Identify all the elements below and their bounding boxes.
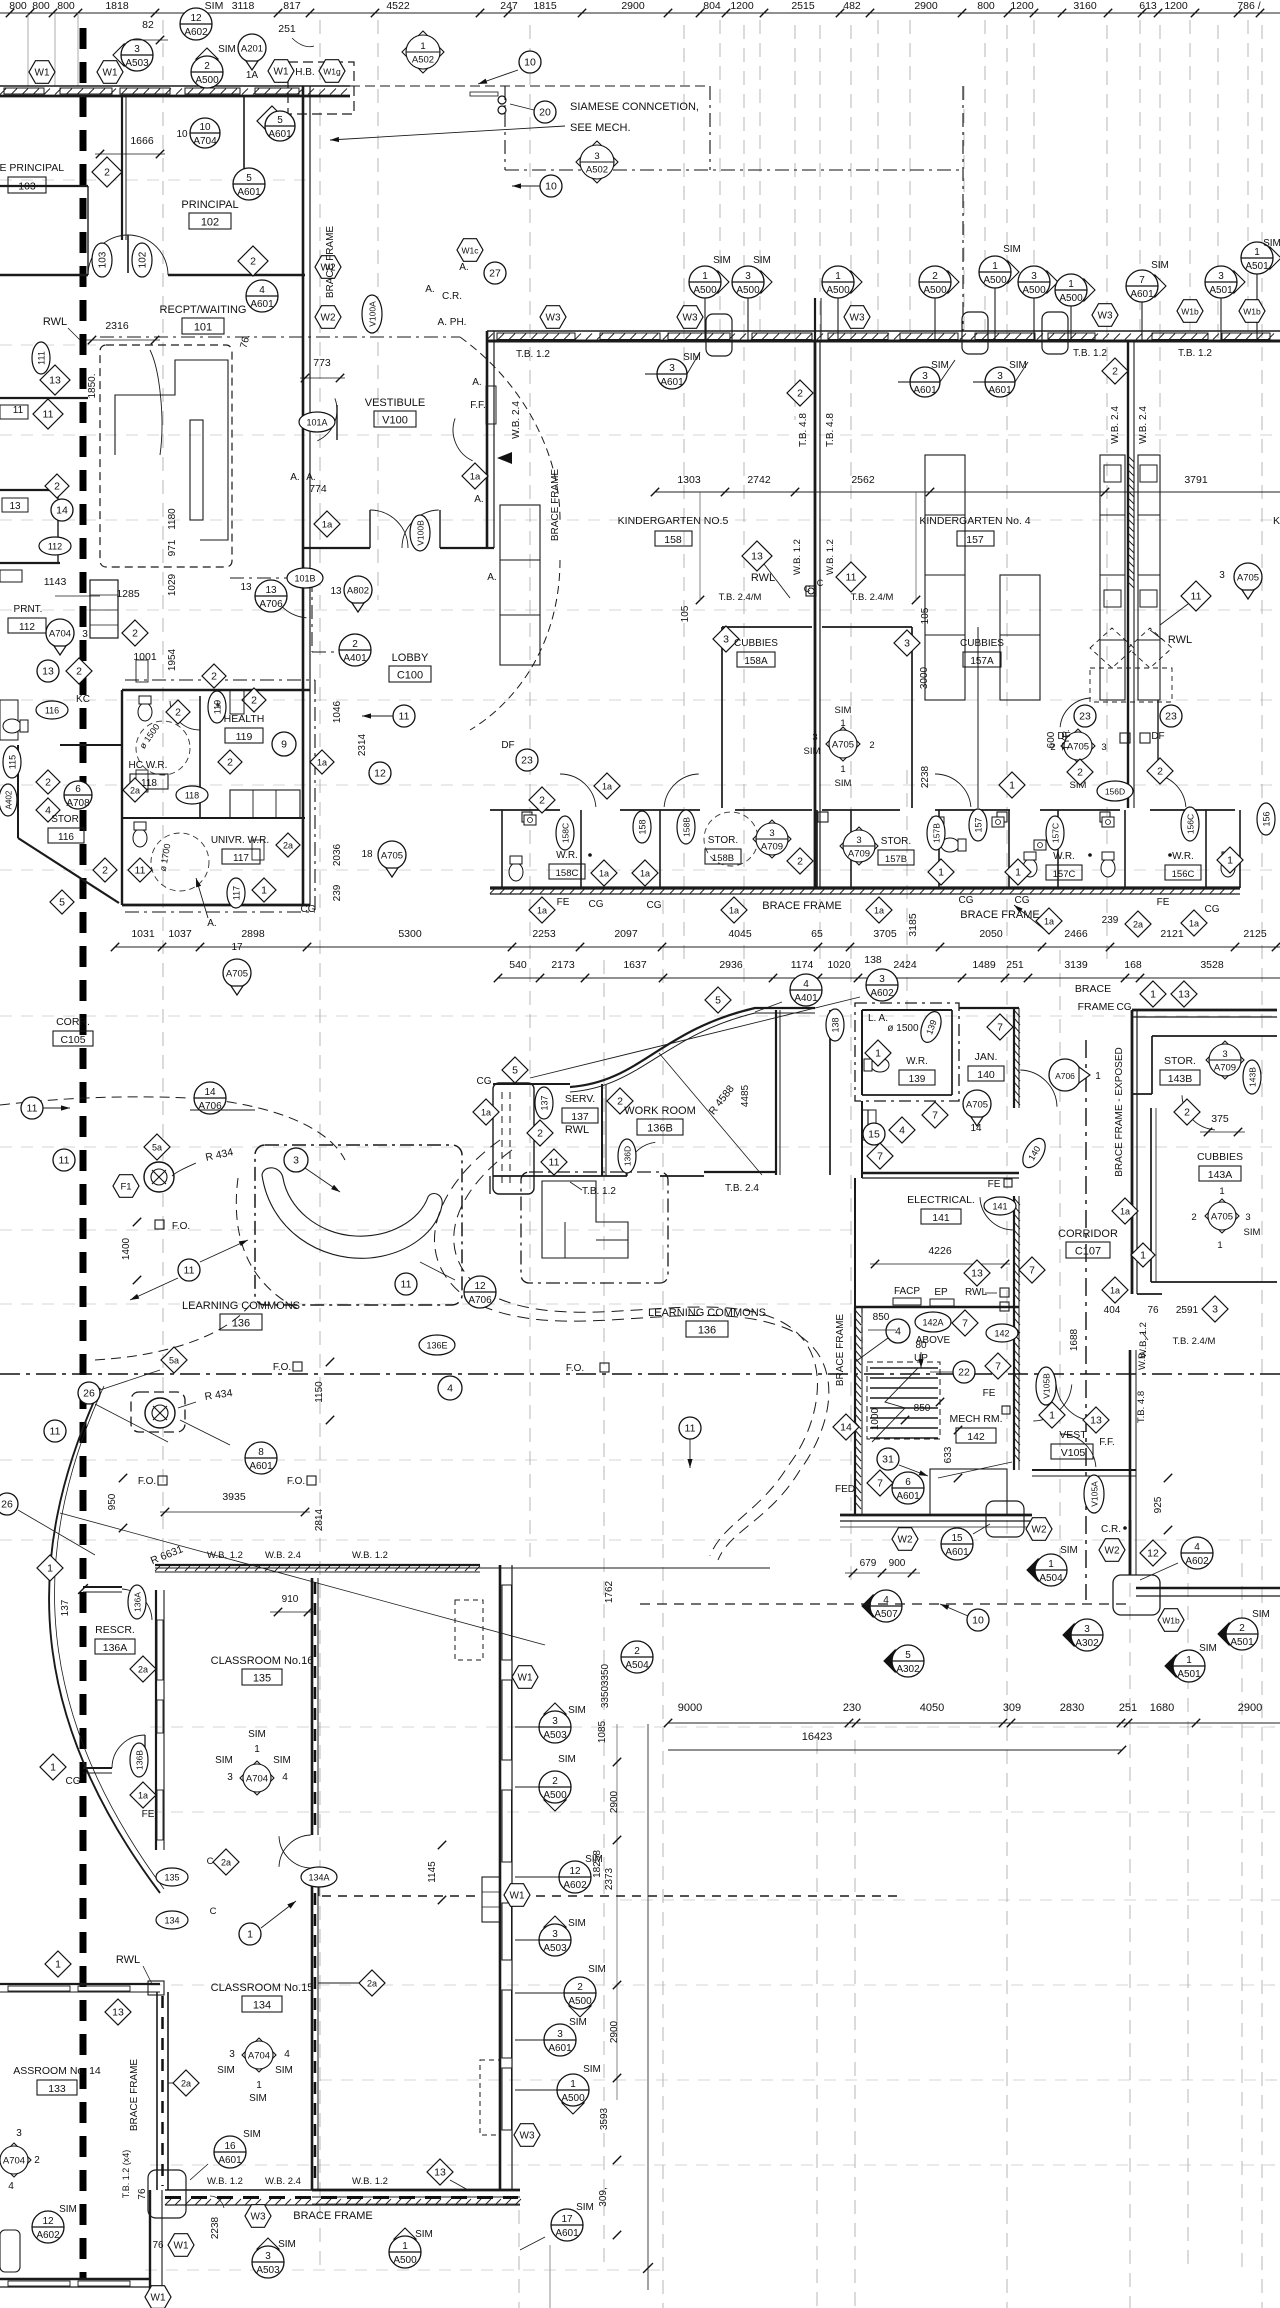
top-area annotations: siamese connection note bbox=[330, 101, 699, 142]
svg-text:101A: 101A bbox=[306, 418, 327, 428]
svg-text:2466: 2466 bbox=[1064, 928, 1088, 940]
svg-text:101: 101 bbox=[194, 322, 212, 334]
mech/vest annotations: tric2A501 bbox=[1218, 1609, 1270, 1650]
svg-text:13: 13 bbox=[1178, 989, 1190, 1001]
top-area annotations: dim 1666 bbox=[95, 135, 165, 158]
svg-text:76: 76 bbox=[1147, 1305, 1159, 1316]
serv/workroom annotations: c3A602 bbox=[530, 969, 898, 1078]
mech/vest annotations: c31 bbox=[877, 1448, 928, 1476]
svg-text:2a: 2a bbox=[367, 1979, 377, 1989]
vestibule walls bbox=[303, 331, 494, 548]
svg-text:1: 1 bbox=[1048, 1559, 1054, 1570]
svg-text:C.R.: C.R. bbox=[442, 291, 462, 302]
svg-text:2: 2 bbox=[76, 666, 82, 678]
svg-text:12: 12 bbox=[1147, 1548, 1159, 1560]
mech/vest annotations: dim679 bbox=[845, 1558, 920, 1577]
learning commons annotations: c3 bean bbox=[284, 1148, 340, 1192]
svg-text:786 /: 786 / bbox=[1237, 0, 1260, 12]
svg-text:137: 137 bbox=[540, 1095, 550, 1110]
mech/vest annotations: tric3A302 bbox=[1063, 1619, 1103, 1651]
svg-text:SIM: SIM bbox=[569, 2017, 587, 2028]
serv/workroom annotations: text RWL s bbox=[565, 1124, 589, 1136]
svg-text:5300: 5300 bbox=[398, 928, 422, 940]
stor143B / cubbies143A walls bbox=[1132, 1010, 1277, 1294]
kindergarten annotations: sim text 762 bbox=[753, 255, 771, 266]
svg-text:910: 910 bbox=[282, 1594, 299, 1605]
svg-text:A500: A500 bbox=[1022, 285, 1046, 296]
svg-text:3139: 3139 bbox=[1064, 959, 1088, 971]
corridor/stor annotations: rwl e bbox=[965, 1287, 1009, 1311]
serv/workroom annotations: d5 s1 bbox=[502, 1057, 528, 1083]
classroom block walls bbox=[0, 1565, 900, 2290]
top-area annotations: detail circle 5/A601 a bbox=[233, 168, 265, 200]
svg-text:3: 3 bbox=[1101, 742, 1106, 753]
kindergarten annotations: window module a bbox=[706, 314, 732, 356]
classroom annotations: rot2238 cl bbox=[210, 2196, 224, 2239]
svg-text:KINDERGARTEN No. 4: KINDERGARTEN No. 4 bbox=[919, 515, 1030, 527]
classroom annotations: c3A601 e bbox=[515, 2017, 587, 2056]
svg-text:13: 13 bbox=[1090, 1415, 1102, 1427]
kindergarten annotations: d2 k3 bbox=[1147, 758, 1173, 784]
svg-text:SIM: SIM bbox=[835, 778, 852, 789]
svg-text:A708: A708 bbox=[66, 798, 90, 809]
svg-text:W1: W1 bbox=[518, 1673, 533, 1684]
svg-text:2900: 2900 bbox=[609, 2020, 620, 2043]
health suite annotations: text CG h bbox=[301, 904, 316, 915]
svg-text:2125: 2125 bbox=[1243, 928, 1267, 940]
svg-text:F.F.: F.F. bbox=[470, 400, 486, 411]
svg-text:27: 27 bbox=[489, 268, 501, 280]
learning commons annotations: c11 m1 bbox=[53, 1149, 75, 1171]
classroom annotations: cl dim ticks bbox=[613, 1758, 621, 2239]
svg-text:1150: 1150 bbox=[314, 1381, 325, 1403]
svg-text:20: 20 bbox=[539, 107, 551, 119]
svg-text:679: 679 bbox=[860, 1558, 877, 1569]
svg-text:A.: A. bbox=[306, 472, 315, 483]
west edge annotations: rot 971 bbox=[167, 539, 178, 556]
svg-text:2: 2 bbox=[251, 695, 257, 707]
classroom annotations: wb labels2 bbox=[207, 2176, 388, 2187]
svg-text:1954: 1954 bbox=[167, 648, 178, 671]
svg-text:3118: 3118 bbox=[232, 0, 255, 12]
svg-text:1046: 1046 bbox=[332, 700, 343, 723]
corridor/stor annotations: d2 s143 bbox=[1174, 1099, 1200, 1125]
top-area annotations: room PRINCIPAL 102 bbox=[181, 199, 238, 229]
svg-text:2: 2 bbox=[34, 2155, 40, 2166]
kindergarten annotations: room CUB157A bbox=[960, 638, 1004, 667]
classroom annotations: dcA704 cl1 bbox=[240, 1761, 274, 1795]
svg-text:A502: A502 bbox=[586, 165, 608, 176]
kindergarten annotations: sim text 692 bbox=[683, 352, 701, 363]
svg-text:W1: W1 bbox=[35, 68, 50, 79]
classroom annotations: sim cluster1 bbox=[215, 1729, 291, 1783]
kindergarten annotations: section marker 1/A500 kg0 bbox=[689, 266, 729, 341]
kindergarten annotations: rot wb12 a bbox=[792, 539, 803, 575]
washroom row annotations: lbl157B bbox=[878, 836, 914, 865]
learning commons annotations: text CG cl bbox=[66, 1776, 81, 1787]
svg-text:101B: 101B bbox=[294, 574, 315, 584]
svg-text:13: 13 bbox=[49, 375, 61, 387]
svg-text:A704: A704 bbox=[3, 2156, 25, 2167]
corridor/stor annotations: d13 bf bbox=[1171, 981, 1197, 1007]
match line (heavy dashed) bbox=[80, 28, 87, 2280]
svg-text:W.B. 2.4: W.B. 2.4 bbox=[511, 401, 522, 439]
svg-text:CG: CG bbox=[66, 1776, 81, 1787]
mech rm / vest walls bbox=[840, 1307, 1280, 1615]
svg-text:A601: A601 bbox=[555, 2228, 579, 2239]
svg-text:3: 3 bbox=[16, 2128, 22, 2139]
svg-text:T.B. 2.4/M: T.B. 2.4/M bbox=[1173, 1336, 1216, 1347]
svg-text:23: 23 bbox=[521, 755, 533, 767]
corridor/stor annotations: ov141 bbox=[984, 1197, 1016, 1215]
svg-text:1031: 1031 bbox=[131, 928, 155, 940]
health suite annotations: dia 1500 bbox=[137, 722, 161, 751]
svg-text:3: 3 bbox=[1245, 1212, 1250, 1223]
top-area annotations: door tag 101A bbox=[299, 412, 335, 432]
classroom annotations: text76 b bbox=[152, 2240, 164, 2251]
svg-text:13: 13 bbox=[42, 666, 54, 678]
svg-text:156C: 156C bbox=[1172, 869, 1195, 880]
svg-text:3791: 3791 bbox=[1184, 474, 1208, 486]
svg-text:404: 404 bbox=[1104, 1305, 1121, 1316]
svg-text:W3: W3 bbox=[251, 2212, 266, 2223]
svg-text:251: 251 bbox=[278, 23, 296, 35]
washroom row annotations: d2 wr3 bbox=[1067, 759, 1093, 785]
svg-text:3705: 3705 bbox=[873, 928, 897, 940]
kindergarten annotations: window tag W3 553 bbox=[540, 306, 566, 329]
washroom row annotations: lbl158B bbox=[705, 835, 741, 864]
svg-text:A705: A705 bbox=[1237, 573, 1259, 584]
health suite walls bbox=[18, 548, 315, 912]
svg-text:F.O.: F.O. bbox=[138, 1476, 156, 1487]
svg-text:157A: 157A bbox=[970, 656, 994, 667]
west edge annotations: d11 w bbox=[33, 399, 63, 429]
svg-text:SIM: SIM bbox=[576, 2202, 594, 2213]
svg-text:2898: 2898 bbox=[241, 928, 265, 940]
svg-text:1a: 1a bbox=[1189, 919, 1199, 929]
svg-text:3: 3 bbox=[922, 371, 928, 382]
health suite annotations: c23 h bbox=[501, 740, 538, 771]
health suite annotations: rot 2036 bbox=[332, 843, 343, 866]
svg-text:T.B. 1.2: T.B. 1.2 bbox=[516, 349, 550, 360]
svg-text:9000: 9000 bbox=[678, 1702, 702, 1714]
svg-text:2: 2 bbox=[797, 856, 803, 868]
svg-text:W2: W2 bbox=[1032, 1525, 1047, 1536]
svg-text:T.B. 1.2: T.B. 1.2 bbox=[1073, 348, 1107, 359]
svg-text:1a: 1a bbox=[138, 1791, 148, 1801]
svg-text:CG: CG bbox=[589, 899, 604, 910]
west edge annotations: rot 1850 bbox=[87, 373, 98, 398]
svg-text:119: 119 bbox=[213, 700, 223, 714]
health suite annotations: d2 h2 bbox=[202, 664, 226, 688]
west edge annotations: d5 w bbox=[50, 890, 74, 914]
svg-text:1: 1 bbox=[1227, 855, 1233, 867]
corridor/stor annotations: d4 j bbox=[889, 1117, 915, 1143]
svg-text:V105A: V105A bbox=[1090, 1481, 1100, 1507]
corridor/stor annotations: d1 c107 bbox=[1131, 1243, 1155, 1267]
kindergarten annotations: c3A601 k3 bbox=[973, 362, 1028, 397]
corridor/stor annotations: d1a c1 bbox=[1112, 1198, 1138, 1224]
svg-text:158C: 158C bbox=[561, 823, 571, 843]
svg-text:1037: 1037 bbox=[168, 928, 192, 940]
learning commons annotations: d2a cl1 bbox=[130, 1656, 156, 1682]
top-area annotations: keynote 10 b bbox=[512, 175, 562, 197]
mech/vest annotations: tric4A507 bbox=[862, 1590, 902, 1622]
mech/vest annotations: tric5A302 bbox=[884, 1645, 924, 1677]
svg-text:FE: FE bbox=[557, 897, 570, 908]
health suite annotations: c12 h bbox=[369, 762, 391, 784]
svg-text:2: 2 bbox=[132, 628, 138, 640]
washroom row annotations: ov156C bbox=[1181, 807, 1199, 841]
top-area annotations: detail circle 12/A602 bbox=[180, 8, 212, 40]
svg-text:2: 2 bbox=[634, 1646, 640, 1657]
learning commons annotations: c11 m4 bbox=[395, 1273, 417, 1295]
kindergarten annotations: section marker 1/A500 kg6 bbox=[1055, 274, 1095, 341]
west edge annotations: dim 1143 bbox=[44, 576, 100, 596]
svg-text:A.: A. bbox=[487, 572, 496, 583]
learning commons annotations: c4 m bbox=[438, 1376, 462, 1400]
classroom annotations: lbl CL16 bbox=[211, 1655, 314, 1685]
kindergarten annotations: window tag W1b 1190 bbox=[1177, 300, 1203, 323]
svg-text:2: 2 bbox=[102, 865, 108, 877]
learning commons annotations: c6A601 m bbox=[892, 1462, 1012, 1504]
svg-text:8: 8 bbox=[258, 1447, 264, 1458]
svg-text:A601: A601 bbox=[660, 377, 684, 388]
svg-text:5: 5 bbox=[246, 173, 252, 184]
svg-text:3: 3 bbox=[879, 974, 885, 985]
classroom annotations: d2a cl5 bbox=[318, 1970, 385, 1996]
svg-text:A.: A. bbox=[425, 284, 434, 295]
serv/workroom annotations: d11 s bbox=[541, 1149, 567, 1175]
svg-text:1: 1 bbox=[835, 271, 841, 282]
svg-text:1a: 1a bbox=[640, 869, 650, 879]
svg-text:134: 134 bbox=[164, 1916, 179, 1926]
svg-text:3: 3 bbox=[1219, 570, 1225, 581]
svg-text:143B: 143B bbox=[1248, 1067, 1258, 1087]
svg-text:W.B. 1.2: W.B. 1.2 bbox=[825, 539, 836, 575]
svg-text:5a: 5a bbox=[152, 1143, 162, 1153]
learning commons annotations: d5a m1 bbox=[144, 1134, 170, 1160]
classroom annotations: d13 cl2 bbox=[427, 2159, 468, 2190]
washroom row annotations: ov158B bbox=[677, 810, 695, 844]
svg-text:VESTIBULE: VESTIBULE bbox=[365, 397, 426, 409]
top-area annotations: text FF bbox=[470, 400, 486, 411]
top-area annotations: section marker 3/A503 bbox=[113, 39, 153, 71]
classroom annotations: d13 cl bbox=[105, 1999, 131, 2025]
svg-text:11: 11 bbox=[59, 1155, 70, 1167]
kindergarten annotations: rot 600 typ bbox=[1046, 730, 1072, 751]
svg-text:CUBBIES: CUBBIES bbox=[960, 638, 1004, 649]
kindergarten annotations: tb12 c bbox=[1178, 348, 1212, 359]
west edge annotations: rot 1954 bbox=[167, 648, 178, 671]
washroom row annotations: row texts bbox=[557, 895, 1220, 926]
svg-text:A601: A601 bbox=[913, 385, 937, 396]
svg-text:1174: 1174 bbox=[791, 959, 814, 971]
corridor/stor annotations: ov142 bbox=[986, 1324, 1018, 1342]
svg-text:11: 11 bbox=[184, 1265, 195, 1277]
lobby boundary bbox=[100, 337, 560, 730]
svg-text:3: 3 bbox=[1222, 1049, 1227, 1060]
svg-text:18258: 18258 bbox=[592, 1850, 603, 1878]
classroom annotations: d2a cl4 bbox=[168, 2070, 199, 2096]
svg-text:1145: 1145 bbox=[427, 1861, 438, 1883]
top-area annotations: section marker 2/A500 bbox=[191, 48, 223, 88]
learning commons annotations: R434 b bbox=[178, 1387, 233, 1408]
corridor/stor annotations: d13 e bbox=[964, 1260, 990, 1286]
svg-text:SIAMESE CONNCETION,: SIAMESE CONNCETION, bbox=[570, 101, 699, 113]
svg-text:RWL: RWL bbox=[751, 572, 775, 584]
svg-text:SIM: SIM bbox=[217, 2065, 235, 2076]
svg-text:3: 3 bbox=[1212, 1304, 1218, 1316]
svg-text:A501: A501 bbox=[1177, 1669, 1201, 1680]
svg-text:142: 142 bbox=[967, 1431, 985, 1443]
svg-text:613: 613 bbox=[1139, 0, 1157, 12]
top-area annotations: door tag 103 bbox=[92, 243, 112, 277]
svg-text:1180: 1180 bbox=[167, 508, 178, 530]
corridor/stor annotations: dim375 bbox=[1200, 1113, 1245, 1136]
kindergarten annotations: text RWL k2 bbox=[1150, 630, 1192, 646]
health suite annotations: rot 2314 bbox=[357, 733, 368, 756]
svg-text:4485: 4485 bbox=[740, 1084, 751, 1107]
corridor/stor annotations: lblJAN bbox=[968, 1051, 1004, 1081]
west edge annotations: c13 w bbox=[37, 660, 59, 682]
svg-text:C: C bbox=[210, 1906, 217, 1917]
svg-text:137: 137 bbox=[60, 1599, 71, 1616]
svg-text:FACP: FACP bbox=[894, 1286, 920, 1297]
svg-text:C: C bbox=[207, 1856, 214, 1867]
top-area annotations: dim 2316 bbox=[86, 320, 160, 344]
kindergarten annotations: window module b bbox=[962, 312, 988, 354]
kindergarten annotations: room CUB158A bbox=[734, 638, 778, 667]
svg-text:FE: FE bbox=[1157, 897, 1170, 908]
svg-text:3: 3 bbox=[1218, 271, 1224, 282]
top-area annotations: text A dots bbox=[290, 377, 512, 583]
svg-text:3: 3 bbox=[1031, 271, 1037, 282]
svg-text:136D: 136D bbox=[623, 1146, 633, 1166]
top-area annotations: window tag W1 b bbox=[97, 61, 123, 84]
west edge annotations: dim 1001 bbox=[133, 651, 157, 663]
svg-text:SIM: SIM bbox=[1009, 360, 1027, 371]
svg-text:T.B. 4.8: T.B. 4.8 bbox=[798, 413, 809, 447]
corridor/stor annotations: ov142A bbox=[915, 1312, 951, 1332]
learning commons annotations: d5a m2 bbox=[161, 1347, 187, 1373]
svg-text:12: 12 bbox=[42, 2216, 54, 2227]
kindergarten annotations: room KG5 bbox=[618, 515, 729, 546]
learning commons annotations: ov136A bbox=[128, 1585, 146, 1619]
svg-text:LEARNING COMMONS: LEARNING COMMONS bbox=[182, 1300, 300, 1312]
washroom row annotations: dots bbox=[588, 853, 1172, 857]
misc leaders: kg dim vert a bbox=[700, 492, 916, 600]
svg-text:1815: 1815 bbox=[533, 0, 557, 12]
corridor/stor annotations: lblWR139 bbox=[899, 1056, 935, 1085]
svg-text:A501: A501 bbox=[1245, 261, 1269, 272]
svg-text:3: 3 bbox=[904, 638, 910, 650]
top-area annotations: sim 5/A601 b bbox=[265, 111, 295, 141]
svg-text:7: 7 bbox=[997, 1022, 1003, 1034]
svg-text:W.R.: W.R. bbox=[906, 1056, 928, 1067]
kindergarten annotations: window tag W3 690 bbox=[677, 306, 703, 329]
svg-text:SIM: SIM bbox=[588, 1964, 606, 1975]
west edge annotations: d11 w2 bbox=[128, 858, 152, 882]
svg-text:A602: A602 bbox=[1185, 1556, 1209, 1567]
svg-text:11: 11 bbox=[135, 865, 146, 877]
svg-text:2900: 2900 bbox=[1238, 1702, 1262, 1714]
classroom annotations: textFE cl bbox=[142, 1809, 155, 1820]
svg-text:A. PH.: A. PH. bbox=[438, 317, 467, 328]
kindergarten annotations: text C C bbox=[804, 578, 824, 594]
svg-text:158B: 158B bbox=[682, 817, 692, 837]
svg-text:A503: A503 bbox=[543, 1943, 567, 1954]
washroom row annotations: dash circle wr bbox=[704, 812, 758, 866]
svg-text:RESCR.: RESCR. bbox=[95, 1624, 135, 1636]
corridor/stor annotations: room CORRIDOR bbox=[1058, 1228, 1118, 1258]
svg-text:2424: 2424 bbox=[893, 959, 917, 971]
svg-text:A705: A705 bbox=[226, 969, 248, 980]
corridor/stor annotations: d7 j1 bbox=[987, 1014, 1013, 1040]
learning commons annotations: c12A706 a bbox=[420, 1262, 496, 1308]
classroom annotations: c1 cl bbox=[239, 1901, 296, 1945]
washroom row annotations: row diamonds bbox=[529, 897, 1207, 937]
svg-text:T.B. 1.2: T.B. 1.2 bbox=[582, 1186, 616, 1197]
washroom row annotations: d1a wr1 bbox=[594, 773, 620, 799]
svg-text:1: 1 bbox=[1095, 1071, 1101, 1082]
corridor/stor annotations: lblCUB143A bbox=[1197, 1151, 1243, 1181]
top-area annotations: siamese glyph bbox=[470, 92, 506, 114]
svg-text:135: 135 bbox=[253, 1673, 271, 1685]
svg-text:157C: 157C bbox=[1053, 869, 1076, 880]
svg-text:A.: A. bbox=[207, 918, 216, 929]
svg-text:7: 7 bbox=[877, 1478, 883, 1490]
svg-text:W.B.: W.B. bbox=[1137, 1350, 1148, 1370]
svg-text:1489: 1489 bbox=[972, 959, 996, 971]
svg-text:2: 2 bbox=[204, 61, 210, 72]
svg-text:CG: CG bbox=[301, 904, 316, 915]
svg-text:SIM: SIM bbox=[558, 1754, 576, 1765]
kindergarten annotations: A705 cub a bbox=[804, 705, 875, 789]
svg-text:2: 2 bbox=[227, 757, 233, 769]
svg-text:1666: 1666 bbox=[130, 135, 154, 147]
top-area annotations: room RECPT/WAITING 101 bbox=[160, 304, 247, 334]
svg-text:142: 142 bbox=[994, 1329, 1009, 1339]
svg-text:W1: W1 bbox=[174, 2241, 189, 2252]
top-area annotations: detail marker 1/A502 bbox=[402, 31, 444, 73]
kindergarten annotations: c23 b bbox=[1151, 705, 1182, 742]
top-area annotations: keynote 13/A706 bbox=[240, 580, 287, 612]
west edge annotations: circ A704 w bbox=[46, 619, 88, 655]
svg-text:A401: A401 bbox=[343, 653, 367, 664]
svg-text:7: 7 bbox=[995, 1361, 1001, 1373]
svg-text:SIM: SIM bbox=[243, 2129, 261, 2140]
svg-text:2900: 2900 bbox=[621, 0, 645, 12]
kindergarten annotations: rot wb24 c bbox=[1138, 406, 1149, 444]
svg-text:1200: 1200 bbox=[1010, 0, 1034, 12]
svg-text:CLASSROOM No.15: CLASSROOM No.15 bbox=[211, 1982, 314, 1994]
classroom annotations: tric3A503 e2 bbox=[515, 1916, 586, 1956]
classroom annotations: dcA704 cl2 bbox=[242, 2038, 276, 2072]
classroom annotations: tric3A503 e1 bbox=[515, 1703, 586, 1743]
svg-text:900: 900 bbox=[889, 1558, 906, 1569]
washroom row annotations: d1 wr4 bbox=[1217, 847, 1243, 873]
washroom row annotations: dcA709 b bbox=[840, 827, 878, 865]
svg-text:157: 157 bbox=[974, 817, 984, 832]
svg-text:2a: 2a bbox=[1133, 920, 1143, 930]
kindergarten annotations: section marker 1/A501 kg9 bbox=[1241, 242, 1280, 341]
serv/workroom annotations: rot4485 bbox=[740, 1084, 751, 1107]
mech/vest annotations: c10 v bbox=[940, 1604, 989, 1631]
svg-text:7: 7 bbox=[1029, 1265, 1035, 1277]
svg-text:1818: 1818 bbox=[105, 0, 129, 12]
mech/vest annotations: c22 bbox=[930, 1361, 975, 1383]
